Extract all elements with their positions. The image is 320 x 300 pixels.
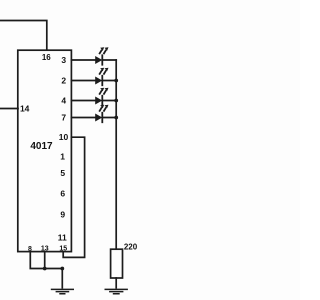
svg-text:15: 15 [59, 245, 67, 252]
svg-text:220: 220 [124, 243, 138, 252]
svg-text:5: 5 [60, 168, 65, 178]
svg-text:10: 10 [59, 132, 69, 142]
svg-text:2: 2 [61, 76, 66, 86]
svg-text:14: 14 [20, 104, 30, 114]
svg-text:1: 1 [60, 152, 65, 162]
svg-text:7: 7 [61, 113, 66, 123]
svg-text:4: 4 [61, 96, 66, 106]
svg-text:11: 11 [58, 232, 67, 242]
svg-text:13: 13 [41, 245, 49, 252]
svg-text:6: 6 [60, 188, 65, 198]
svg-text:3: 3 [61, 55, 66, 65]
svg-text:8: 8 [28, 246, 32, 253]
svg-text:4017: 4017 [30, 141, 53, 152]
svg-text:9: 9 [60, 209, 65, 219]
svg-text:16: 16 [42, 53, 51, 62]
